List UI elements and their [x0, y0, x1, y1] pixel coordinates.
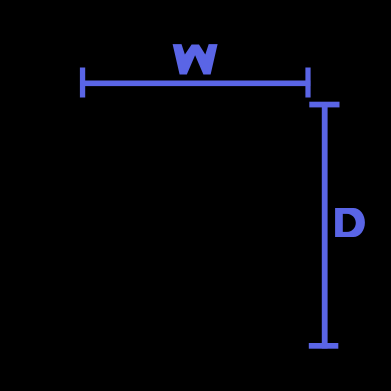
dimension W: horizontal line [80, 81, 311, 87]
dimension W: left tick [80, 68, 85, 98]
dimension D: top tick [309, 102, 339, 108]
dimension D: vertical line [322, 102, 328, 349]
dimension D: bottom tick [309, 343, 339, 349]
dimension W: label W [173, 44, 218, 74]
dimension W: right tick [305, 68, 310, 98]
dimension D: label D [335, 208, 365, 237]
